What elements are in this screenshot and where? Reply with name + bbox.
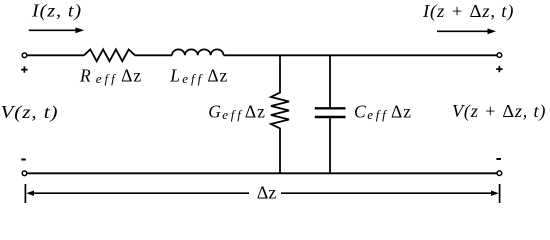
svg-text:I(z, t): I(z, t): [31, 2, 82, 22]
svg-text:V(z + Δz, t): V(z + Δz, t): [452, 101, 546, 122]
svg-text:V(z, t): V(z, t): [1, 103, 59, 122]
svg-text:I(z + Δz, t): I(z + Δz, t): [422, 1, 514, 22]
svg-text:Δz: Δz: [257, 183, 277, 203]
